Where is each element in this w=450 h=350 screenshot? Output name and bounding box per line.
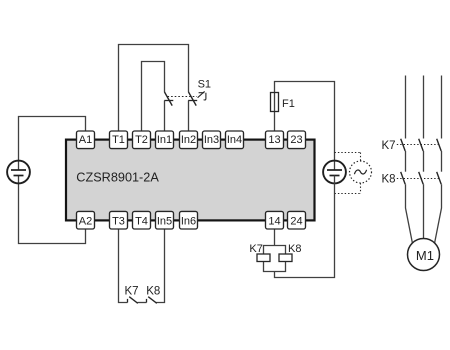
power supply G2 (right DC source) [323, 161, 346, 184]
svg-text:K7: K7 [249, 243, 262, 255]
power supply G1 (left DC source) [7, 161, 30, 184]
svg-text:In2: In2 [181, 134, 196, 146]
terminal In4 [226, 131, 244, 149]
wire L2 to motor [423, 184, 425, 238]
svg-text:T4: T4 [135, 215, 148, 227]
S1 actuator symbol [198, 91, 206, 100]
wire T3 down (feedback loop) [119, 229, 128, 303]
contact K7 main pole 3 [437, 139, 442, 151]
wire L1 to motor [406, 184, 413, 243]
S1 mechanical linkage (dashed) [168, 96, 197, 98]
dashed link G2 to AC alternative [335, 153, 361, 194]
svg-text:24: 24 [290, 215, 302, 227]
three-phase line L2 upper [423, 76, 425, 139]
relay coil K7 [257, 254, 270, 262]
svg-text:S1: S1 [198, 78, 211, 90]
wire S1 contact 1 to In1 [164, 101, 166, 132]
terminal T4 [133, 211, 151, 229]
svg-text:In4: In4 [227, 134, 242, 146]
wire T1 up over to S1 contact 2 [119, 45, 189, 132]
svg-text:T3: T3 [112, 215, 125, 227]
terminal In2 [180, 131, 198, 149]
coil branch wires [264, 246, 286, 272]
svg-text:In5: In5 [157, 215, 172, 227]
three-phase line L2 middle [423, 151, 425, 172]
svg-text:In1: In1 [157, 134, 172, 146]
fuse F1 [271, 93, 279, 112]
wire In5 down (feedback loop) [156, 229, 165, 303]
terminal 13 [266, 131, 284, 149]
wire S1 contact 2 to In2 [188, 101, 190, 132]
svg-text:K7: K7 [382, 140, 396, 152]
wire A1 to supply G1 plus [19, 117, 86, 171]
terminal In1 [156, 131, 174, 149]
wire terminal 14 down to coil node [274, 229, 276, 246]
wire between feedback contacts [138, 302, 147, 304]
svg-text:A1: A1 [79, 134, 92, 146]
terminal 23 [288, 131, 306, 149]
relay coil K8 [279, 254, 292, 262]
K8 linkage dashed [397, 178, 439, 180]
terminal T3 [110, 211, 128, 229]
relay module CZSR8901-2A body [66, 140, 315, 221]
wire supply G1 minus to A2 [19, 176, 86, 244]
contact K7 main pole 1 [401, 139, 406, 151]
svg-text:In3: In3 [204, 134, 219, 146]
contact K8 main pole 3 [437, 172, 442, 184]
svg-text:F1: F1 [282, 98, 295, 110]
switch S1 contact 1 (NC) [164, 92, 173, 106]
terminal In3 [203, 131, 221, 149]
contact K8 NC (feedback) [147, 297, 157, 304]
terminal A2 [77, 211, 95, 229]
svg-text:K8: K8 [288, 243, 301, 255]
terminal 24 [288, 211, 306, 229]
wire T2 up over to S1 contact 1 [142, 62, 165, 132]
contact K8 main pole 1 [401, 172, 406, 184]
svg-text:T1: T1 [112, 134, 125, 146]
contact K7 main pole 2 [419, 139, 424, 151]
svg-text:A2: A2 [79, 215, 92, 227]
svg-text:K8: K8 [382, 174, 396, 186]
contact K8 main pole 2 [419, 172, 424, 184]
svg-text:CZSR8901-2A: CZSR8901-2A [76, 171, 159, 185]
switch S1 contact 2 (NC) [188, 92, 197, 106]
svg-text:In6: In6 [181, 215, 196, 227]
three-phase line L1 upper [405, 76, 407, 139]
terminal 14 [266, 211, 284, 229]
three-phase line L3 middle [441, 151, 443, 172]
AC source alternative (dashed circle) [350, 161, 372, 183]
terminal In6 [180, 211, 198, 229]
svg-text:M1: M1 [416, 248, 434, 263]
motor M1 [408, 239, 440, 271]
three-phase line L1 middle [405, 151, 407, 172]
wire terminal 13 through F1 to supply G2 [275, 82, 335, 171]
terminal In5 [156, 211, 174, 229]
svg-text:23: 23 [290, 134, 302, 146]
wire L3 to motor [435, 184, 442, 243]
three-phase line L3 upper [441, 76, 443, 139]
K7 linkage dashed [397, 144, 439, 146]
svg-text:14: 14 [268, 215, 280, 227]
terminal T1 [110, 131, 128, 149]
svg-text:K8: K8 [146, 285, 160, 297]
wire supply G2 minus down to coil return [275, 176, 335, 278]
terminal A1 [77, 131, 95, 149]
terminal T2 [133, 131, 151, 149]
svg-text:K7: K7 [125, 285, 139, 297]
svg-text:13: 13 [268, 134, 280, 146]
contact K7 NC (feedback) [128, 297, 138, 304]
svg-text:T2: T2 [135, 134, 148, 146]
